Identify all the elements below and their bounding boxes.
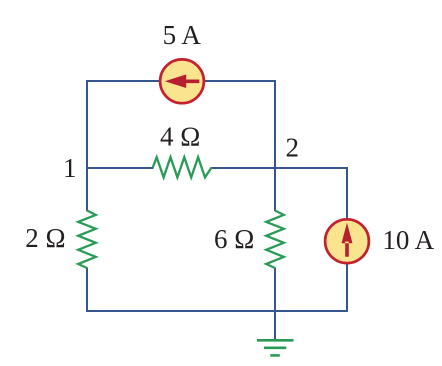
ground symbol — [257, 340, 294, 355]
svg-text:5 A: 5 A — [163, 20, 202, 50]
current source 10 A arrow (pointing up) — [342, 223, 353, 257]
resistor 6 ohm (node 2 branch) — [266, 211, 284, 269]
wire: middle rail, node 1 to 4-ohm resistor — [86, 167, 154, 169]
svg-text:6 Ω: 6 Ω — [214, 224, 254, 254]
wire: node 2 vertical, top rail down to 6-ohm resistor — [274, 80, 276, 211]
wire: top rail from node above 1 to node above 2 — [87, 80, 275, 82]
wire: right branch vertical, 10 A source down to bottom rail — [346, 261, 348, 312]
current source 10 A (circle body) — [325, 219, 369, 263]
current source 5 A arrow (pointing left) — [165, 74, 200, 88]
wire: middle rail, 4-ohm resistor through node 2 to right branch — [211, 167, 347, 169]
svg-text:10 A: 10 A — [382, 225, 434, 255]
svg-text:2 Ω: 2 Ω — [25, 223, 65, 253]
wire: left vertical, node 1 up to top rail — [86, 80, 88, 211]
svg-text:1: 1 — [63, 153, 77, 183]
wire: bottom rail — [86, 310, 347, 312]
svg-text:4 Ω: 4 Ω — [160, 122, 200, 152]
wire: right branch vertical, middle rail down to 10 A source — [346, 167, 348, 221]
resistor 4 ohm (between node 1 and node 2) — [153, 157, 212, 177]
wire: left vertical, below 2-ohm resistor to bottom rail — [86, 268, 88, 313]
svg-text:2: 2 — [286, 133, 300, 163]
current source 5 A (circle body) — [160, 59, 204, 103]
wire: node 2 vertical, below 6-ohm resistor through bottom rail to ground — [274, 268, 276, 340]
resistor 2 ohm (left branch) — [78, 211, 96, 269]
